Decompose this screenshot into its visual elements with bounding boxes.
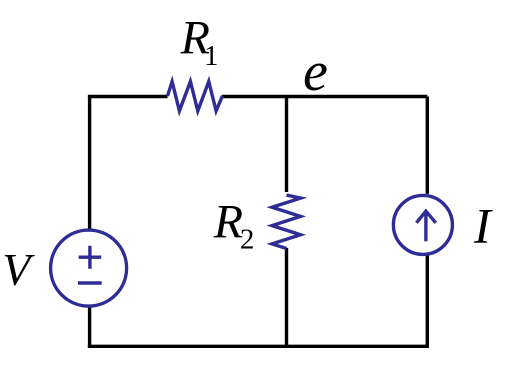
wire top-left segment [90,95,168,97]
wire top-right segment [222,95,427,98]
svg-text:R: R [213,195,243,248]
svg-text:e: e [303,41,328,103]
svg-text:1: 1 [204,40,219,72]
voltage source plus sign [79,246,102,269]
current source I circle [393,195,452,254]
voltage source V circle [51,230,127,306]
resistor R2 [272,195,301,248]
wire bottom [88,345,429,348]
wire right vertical lower [426,254,429,346]
current source arrow [416,211,435,241]
svg-text:2: 2 [240,224,255,256]
wire middle vertical lower [285,248,288,346]
resistor R1 [168,82,223,111]
wire right vertical upper [426,97,429,194]
wire left vertical lower [88,306,91,347]
wire left vertical upper [88,97,91,231]
svg-text:V: V [2,244,35,295]
wire middle vertical upper [285,97,288,193]
voltage source minus sign [78,281,102,284]
svg-text:I: I [473,197,493,253]
